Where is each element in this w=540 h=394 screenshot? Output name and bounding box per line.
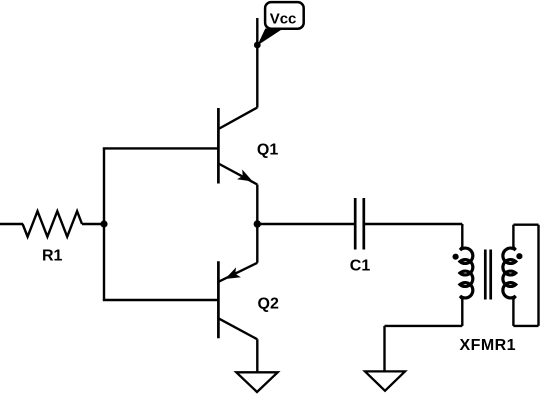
wire xyxy=(103,147,218,149)
wire xyxy=(256,339,258,372)
svg-text:XFMR1: XFMR1 xyxy=(460,337,516,354)
wire xyxy=(383,326,385,372)
polarity dot primary xyxy=(453,254,459,260)
wire xyxy=(82,223,104,225)
wire xyxy=(513,325,538,327)
svg-text:C1: C1 xyxy=(350,258,371,275)
polarity dot secondary xyxy=(516,253,522,259)
wire xyxy=(256,185,258,225)
node OUT junction dot xyxy=(254,220,261,227)
power Vcc flag xyxy=(254,2,304,48)
wire xyxy=(364,223,463,225)
transistor Q2 xyxy=(218,261,257,339)
ground xyxy=(365,371,405,390)
capacitor C1 xyxy=(355,198,364,250)
transformer XFMR1 secondary winding xyxy=(503,225,516,326)
wire xyxy=(385,325,463,327)
svg-text:Q2: Q2 xyxy=(258,295,279,312)
transformer XFMR1 primary winding xyxy=(460,224,473,326)
ground xyxy=(236,372,277,392)
svg-text:Vcc: Vcc xyxy=(270,11,297,28)
wire xyxy=(103,148,105,300)
wire xyxy=(513,223,538,225)
resistor R1 xyxy=(23,211,82,237)
svg-text:R1: R1 xyxy=(42,248,63,265)
node A junction dot xyxy=(100,220,107,227)
wire xyxy=(0,223,23,225)
transistor Q1 xyxy=(218,108,257,185)
transformer core xyxy=(485,250,490,300)
svg-text:Q1: Q1 xyxy=(257,142,278,159)
wire xyxy=(103,299,218,301)
wire xyxy=(256,18,258,108)
wire xyxy=(537,225,539,326)
wire xyxy=(256,224,258,263)
wire xyxy=(257,223,355,225)
